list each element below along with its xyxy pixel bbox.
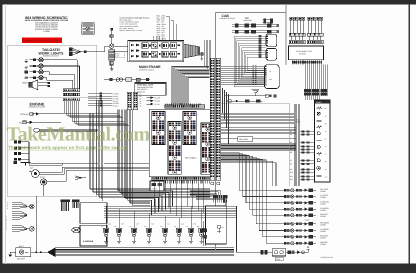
cab right mini rows bbox=[263, 19, 273, 24]
battery fan-out connector 3 bbox=[12, 225, 30, 231]
ECU outer box bbox=[149, 109, 216, 176]
battery ground bbox=[8, 252, 15, 256]
svg-text:6678378: 6678378 bbox=[299, 53, 306, 56]
fuse F5 bbox=[142, 51, 148, 57]
sheet left inner edge line bbox=[4, 4, 7, 264]
tilt dock label bbox=[296, 119, 302, 124]
svg-text:CONN: CONN bbox=[320, 237, 326, 240]
attachment control box bbox=[289, 46, 324, 60]
gauge feed rows bbox=[300, 131, 315, 181]
svg-text:DC: DC bbox=[246, 17, 250, 20]
accessory row TURN SIG bbox=[284, 201, 329, 206]
bus group E staircase to lower right rows bbox=[221, 153, 284, 243]
pin column before lower panel bbox=[253, 65, 257, 85]
engine wires to main harness bbox=[29, 163, 149, 181]
svg-text:PANEL: PANEL bbox=[316, 101, 322, 104]
harness nested bends to seat bar bbox=[190, 190, 226, 205]
cable fan arrow bbox=[47, 247, 55, 257]
battery fan-out connector 1 bbox=[7, 201, 30, 210]
harness nested bends to relay bus bbox=[150, 191, 173, 215]
fuse F4 bbox=[170, 43, 176, 49]
svg-text:CONN: CONN bbox=[320, 224, 326, 227]
starter return wire bbox=[35, 196, 37, 252]
glow plug bar bbox=[14, 161, 62, 165]
cab lower boundary line bbox=[216, 103, 291, 105]
sheet right edge line bbox=[409, 4, 410, 264]
engine harness drop wires bbox=[65, 101, 130, 126]
ECU comb drop wires bbox=[154, 181, 204, 218]
round connector 1 bbox=[30, 204, 35, 209]
engine bus lines to right bbox=[89, 188, 210, 198]
ground lug bottom right bbox=[305, 247, 310, 253]
svg-text:HARNESS 6724136: HARNESS 6724136 bbox=[139, 68, 154, 71]
fuse F3 bbox=[162, 43, 168, 49]
engine-bay vertical harness bundle A bbox=[89, 113, 94, 193]
accessory row HEATER bbox=[284, 241, 328, 246]
alternator bbox=[29, 167, 58, 178]
inset drop bundle bbox=[118, 110, 150, 206]
svg-text:CONN: CONN bbox=[320, 203, 326, 206]
wires below control box bbox=[305, 64, 327, 100]
gauge row labels bbox=[290, 130, 294, 181]
svg-text:CONN: CONN bbox=[320, 209, 326, 212]
wire color legend column bbox=[157, 14, 167, 40]
fuel sender lamp bbox=[34, 128, 97, 132]
accessory row BEACON bbox=[284, 235, 329, 240]
accessory row FLASHER bbox=[284, 207, 329, 212]
accessory row RH WORK bbox=[284, 222, 330, 227]
accessory row LH STOP bbox=[284, 194, 329, 199]
solenoid K8 bbox=[197, 225, 204, 243]
solenoid K1 bbox=[101, 225, 108, 243]
relay socket stack 2 bbox=[307, 17, 323, 43]
svg-text:W11: W11 bbox=[290, 175, 293, 178]
tailgate section title bbox=[39, 48, 65, 58]
strip bottom circles bbox=[211, 182, 220, 185]
accessory row LH WORK bbox=[284, 228, 329, 233]
svg-text:CONN: CONN bbox=[320, 190, 326, 193]
work lamp row 3 bbox=[25, 70, 49, 74]
cab accessory wire run 2 bbox=[232, 30, 279, 34]
engine-bay vertical harness bundle B bbox=[96, 100, 102, 201]
staircase extra wires bbox=[221, 161, 276, 186]
radio chain row bbox=[225, 94, 276, 98]
fuel pump oval bbox=[72, 227, 81, 233]
ECU connector strip J3 bbox=[183, 112, 196, 145]
fuel shutoff box lower bbox=[80, 225, 107, 246]
starter motor bbox=[40, 176, 62, 196]
ECU top comb connector bbox=[165, 103, 205, 108]
instrument panel tall box bbox=[315, 100, 331, 182]
bus group D bbox=[221, 144, 296, 150]
bottom hatch connector pins 2 bbox=[72, 200, 80, 208]
work lamp row 2 bbox=[25, 64, 80, 68]
engine sensor row: coolant bbox=[20, 113, 64, 116]
engine sensor row: oil pressure bbox=[19, 121, 61, 124]
battery fan-out connector 2 bbox=[12, 211, 27, 219]
battery cable to fan arrow bbox=[31, 252, 47, 253]
engine section title bbox=[29, 101, 45, 108]
fuse F1 bbox=[142, 43, 148, 49]
inset row end connectors bbox=[99, 93, 102, 107]
fuel shutoff box upper bbox=[80, 203, 107, 224]
title block: 864 WIRING SCHEMATIC bbox=[25, 16, 69, 33]
key switch wire to title bbox=[111, 28, 113, 35]
relay bus vertical drops bbox=[106, 206, 202, 228]
bus group A bbox=[221, 113, 294, 117]
CAB section boundary bbox=[216, 13, 287, 251]
cab edge connector strip 2 bbox=[216, 58, 221, 180]
bottom border bar bbox=[0, 264, 416, 273]
panel right tick labels bbox=[325, 107, 328, 178]
fuse inner marks bbox=[143, 44, 175, 56]
fuse F6 bbox=[151, 51, 157, 57]
svg-text:BATTERY: BATTERY bbox=[17, 257, 26, 260]
inset connector strip right bbox=[133, 92, 137, 109]
work lamp row 1 bbox=[25, 58, 78, 62]
key switch dashed label box bbox=[115, 52, 124, 58]
relay row labels bbox=[108, 223, 197, 226]
inset note box (NOT USED) bbox=[135, 82, 166, 95]
svg-text:V-2658 (3-01-01): V-2658 (3-01-01) bbox=[320, 256, 333, 259]
ECU connector strip J2 bbox=[168, 122, 181, 175]
inset strip pin labels bbox=[113, 93, 141, 108]
small device right of taper bbox=[200, 52, 203, 60]
inset lower arrow rows bbox=[147, 96, 161, 105]
seat bar box bbox=[206, 206, 227, 244]
approval stamp bbox=[82, 23, 95, 35]
cab accessory wire run 1 bbox=[232, 24, 279, 28]
main power bus lines bbox=[55, 248, 234, 256]
svg-text:RR HARN: RR HARN bbox=[239, 138, 248, 141]
key switch to fuse wire bbox=[113, 46, 127, 51]
work lamp row 4 bbox=[25, 75, 47, 79]
ECU connector strip J4 bbox=[201, 123, 214, 174]
inline connector pair on drop wires 3 bbox=[320, 89, 327, 95]
svg-text:ATTACHMENT CTRL: ATTACHMENT CTRL bbox=[296, 50, 312, 53]
svg-text:CONN C4: CONN C4 bbox=[137, 91, 145, 94]
right harness vertical bundle bbox=[295, 104, 300, 186]
battery bbox=[16, 245, 31, 261]
svg-text:W12: W12 bbox=[290, 178, 294, 181]
switch panel box upper A bbox=[266, 34, 277, 47]
svg-text:CONN: CONN bbox=[320, 230, 326, 233]
CAB label bbox=[220, 14, 235, 20]
svg-text:HARNESS 6724706: HARNESS 6724706 bbox=[29, 106, 45, 109]
inline connector chain above inset bbox=[104, 78, 150, 81]
seat bar switch comb bbox=[213, 195, 227, 202]
engine sender chain row 3 bbox=[14, 152, 29, 154]
engine sender chain row 4 bbox=[14, 158, 29, 160]
ECU connector strip J1 bbox=[152, 112, 165, 145]
legend to harness vertical wires bbox=[205, 40, 211, 72]
tailgate harness connector bars bbox=[63, 89, 79, 101]
engine section box bbox=[8, 98, 97, 197]
solenoid K6 bbox=[174, 225, 181, 243]
harness taper to right bbox=[184, 44, 198, 58]
accessory row RH STOP bbox=[284, 188, 329, 193]
cab harness horizontal bundle bbox=[221, 66, 265, 84]
svg-text:W10: W10 bbox=[290, 171, 294, 174]
inset strip wires left bbox=[88, 94, 113, 106]
svg-text:V-2658: V-2658 bbox=[43, 30, 50, 33]
svg-text:DIODE: DIODE bbox=[152, 188, 158, 191]
cab lower right boundary bbox=[289, 104, 291, 186]
diode pack box bbox=[150, 181, 164, 191]
switch panel box lower bbox=[265, 65, 280, 89]
switch panel upper pin fan bbox=[234, 35, 266, 86]
fuse panel box bbox=[128, 40, 184, 61]
tailgate fan to key switch wire bbox=[86, 46, 109, 52]
fuse panel diode column bbox=[131, 44, 139, 57]
engine sender chain row 1 bbox=[14, 141, 29, 143]
svg-text:6724137 REV A: 6724137 REV A bbox=[5, 215, 8, 230]
ECU bottom comb connector bbox=[152, 177, 211, 184]
svg-text:The watermark only appear on f: The watermark only appear on first page … bbox=[8, 145, 128, 150]
svg-text:TakeManual.com: TakeManual.com bbox=[7, 124, 151, 146]
svg-text:COOLANT: COOLANT bbox=[20, 113, 30, 116]
accessory row BACKUP bbox=[284, 213, 328, 218]
solenoid K3 bbox=[129, 225, 136, 243]
dome lamp chain row bbox=[228, 100, 263, 103]
fuse panel inner marks bbox=[149, 44, 180, 55]
relay socket stack 1 bbox=[289, 17, 305, 43]
switch panel box upper B bbox=[266, 48, 277, 60]
cab feeder verticals bbox=[223, 88, 229, 144]
cab edge connector strip 1 bbox=[210, 58, 215, 180]
right section boundary bbox=[285, 5, 287, 65]
svg-text:6-ARNPAB: 6-ARNPAB bbox=[83, 240, 94, 243]
solenoid K4 bbox=[144, 225, 151, 243]
preview red banner bbox=[22, 37, 62, 43]
solenoid K2 bbox=[114, 225, 121, 243]
svg-text:HARNESS 6724707: HARNESS 6724707 bbox=[43, 55, 59, 58]
DC power label bbox=[244, 17, 253, 22]
panel internal symbols bbox=[317, 107, 323, 177]
inline connector pair on drop wires 2 bbox=[312, 89, 319, 95]
engine sender chain row 2 bbox=[14, 147, 29, 149]
svg-text:MAIN FRAME: MAIN FRAME bbox=[139, 65, 161, 69]
legend drops into fuse panel bbox=[154, 36, 163, 40]
horn speaker bbox=[22, 80, 49, 90]
inline connector pair bottom bbox=[261, 250, 268, 254]
svg-text:4: 4 bbox=[7, 207, 8, 210]
taper end cap bbox=[198, 46, 201, 55]
bus group C bbox=[221, 128, 296, 134]
solenoid K7 bbox=[186, 225, 193, 243]
svg-text:Preview Version Click Here: Preview Version Click Here bbox=[22, 39, 62, 43]
svg-text:CONN: CONN bbox=[320, 196, 326, 199]
bottom feed wire bbox=[237, 206, 281, 252]
inline connector pair on drop wires 1 bbox=[304, 89, 311, 95]
fuse panel drop bundle to ECU bbox=[172, 66, 210, 104]
bus group B bbox=[221, 119, 294, 123]
svg-text:HARNESS 6724135: HARNESS 6724135 bbox=[220, 17, 235, 20]
starter cable connector bbox=[286, 250, 305, 254]
key switch column bbox=[109, 35, 115, 71]
fuse F7 bbox=[162, 51, 168, 57]
round connector 2 bbox=[30, 227, 35, 232]
svg-text:NO 6724012: NO 6724012 bbox=[185, 157, 197, 160]
top border bar bbox=[0, 0, 416, 5]
fuse holder box bbox=[272, 249, 285, 261]
legend drop wires bbox=[166, 16, 176, 40]
tailgate/work lights section box bbox=[8, 45, 97, 97]
inset connector strip left bbox=[127, 92, 131, 109]
fuse F8 bbox=[170, 51, 176, 57]
seat bar inner mark bbox=[217, 225, 224, 233]
connector arrow right bbox=[75, 176, 86, 180]
sender bus vertical bbox=[28, 142, 30, 164]
notes text block bbox=[119, 16, 149, 32]
tailgate connector fan bbox=[69, 48, 86, 56]
control box comb bbox=[292, 60, 322, 65]
relay bus nested lines bbox=[104, 206, 237, 218]
bottom hatch connector pins 1 bbox=[60, 200, 69, 211]
svg-text:CONN: CONN bbox=[320, 243, 326, 246]
fuse F2 bbox=[151, 43, 157, 49]
inline label box on bus bbox=[221, 137, 296, 141]
svg-text:HORN: HORN bbox=[22, 82, 28, 85]
lamp drop wires bbox=[47, 60, 80, 89]
antenna funnel symbol bbox=[252, 90, 260, 96]
svg-text:CONN: CONN bbox=[320, 215, 326, 218]
solenoid K5 bbox=[160, 225, 167, 243]
flasher module bbox=[203, 221, 208, 246]
left border strip bbox=[0, 0, 3, 273]
